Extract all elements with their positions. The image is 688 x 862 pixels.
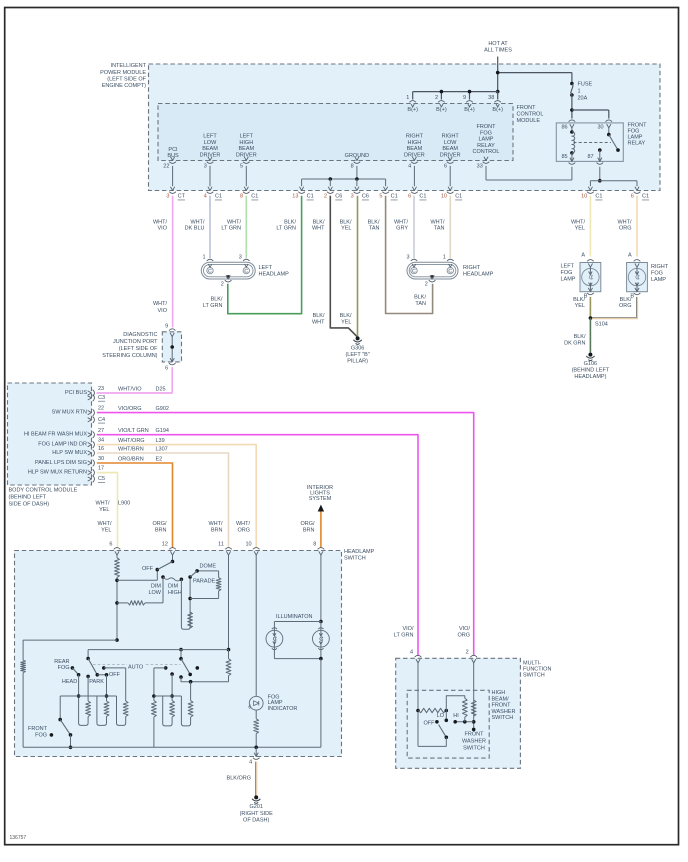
svg-text:G201: G201 bbox=[249, 804, 262, 810]
svg-text:ORG: ORG bbox=[237, 527, 250, 533]
svg-text:WHT/: WHT/ bbox=[95, 501, 110, 507]
svg-text:PCI BUS: PCI BUS bbox=[65, 390, 87, 396]
svg-text:ORG/BRN: ORG/BRN bbox=[118, 456, 144, 462]
svg-text:ORG: ORG bbox=[457, 632, 470, 638]
svg-text:OFF: OFF bbox=[109, 672, 121, 678]
svg-text:(RIGHT SIDE: (RIGHT SIDE bbox=[240, 811, 274, 817]
svg-text:FRONT: FRONT bbox=[517, 105, 537, 111]
svg-text:LAMP: LAMP bbox=[561, 277, 576, 283]
svg-text:FRONT: FRONT bbox=[28, 726, 48, 732]
svg-text:D25: D25 bbox=[156, 386, 166, 392]
svg-text:LAMP: LAMP bbox=[651, 277, 666, 283]
svg-text:C1: C1 bbox=[307, 194, 314, 200]
svg-text:ORG/: ORG/ bbox=[152, 521, 167, 527]
svg-text:RELAY: RELAY bbox=[628, 141, 646, 147]
svg-text:5: 5 bbox=[379, 194, 382, 200]
svg-text:SWITCH: SWITCH bbox=[492, 715, 514, 721]
svg-text:4: 4 bbox=[410, 650, 413, 656]
svg-text:FUSE: FUSE bbox=[578, 82, 593, 88]
svg-text:BLK/: BLK/ bbox=[414, 295, 426, 301]
svg-text:27: 27 bbox=[98, 428, 104, 434]
svg-text:WASHER: WASHER bbox=[492, 709, 516, 715]
svg-text:RIGHT: RIGHT bbox=[442, 134, 460, 140]
svg-text:6: 6 bbox=[631, 194, 634, 200]
svg-text:C1: C1 bbox=[391, 194, 398, 200]
svg-text:VIO/: VIO/ bbox=[402, 626, 413, 632]
svg-text:PARADE: PARADE bbox=[193, 578, 216, 584]
svg-text:HEADLAMP): HEADLAMP) bbox=[574, 374, 606, 380]
svg-text:4: 4 bbox=[204, 194, 207, 200]
svg-text:RIGHT: RIGHT bbox=[651, 264, 669, 270]
svg-text:LAMP: LAMP bbox=[479, 137, 494, 143]
svg-text:S104: S104 bbox=[595, 321, 608, 327]
svg-text:3: 3 bbox=[204, 164, 207, 170]
svg-text:C6: C6 bbox=[335, 194, 342, 200]
svg-text:FOG: FOG bbox=[35, 733, 47, 739]
svg-text:LT GRN: LT GRN bbox=[276, 226, 296, 232]
svg-text:B(+): B(+) bbox=[436, 107, 447, 113]
svg-text:VIO/LT GRN: VIO/LT GRN bbox=[118, 428, 149, 434]
svg-text:C5: C5 bbox=[98, 476, 105, 482]
svg-text:VIO: VIO bbox=[158, 226, 168, 232]
svg-text:WHT/: WHT/ bbox=[227, 219, 242, 225]
svg-text:B(+): B(+) bbox=[464, 107, 475, 113]
svg-text:33: 33 bbox=[477, 164, 483, 170]
svg-text:BLK/: BLK/ bbox=[573, 297, 585, 303]
svg-text:WHT/: WHT/ bbox=[97, 521, 112, 527]
svg-text:WHT/VIO: WHT/VIO bbox=[118, 386, 142, 392]
svg-text:C4: C4 bbox=[98, 417, 105, 423]
svg-text:FRONT: FRONT bbox=[477, 124, 497, 130]
svg-text:2: 2 bbox=[425, 281, 428, 287]
svg-text:G194: G194 bbox=[156, 428, 169, 434]
svg-text:34: 34 bbox=[98, 438, 104, 444]
svg-text:DIM: DIM bbox=[151, 584, 162, 590]
svg-text:WHT/: WHT/ bbox=[617, 219, 632, 225]
svg-text:HIGH: HIGH bbox=[239, 140, 253, 146]
svg-text:BEAM: BEAM bbox=[442, 146, 458, 152]
svg-text:LEFT: LEFT bbox=[203, 134, 217, 140]
svg-text:PARK: PARK bbox=[89, 679, 104, 685]
svg-text:BLK/: BLK/ bbox=[368, 219, 380, 225]
svg-text:WHT/: WHT/ bbox=[394, 219, 409, 225]
svg-text:6: 6 bbox=[444, 164, 447, 170]
svg-text:LEFT: LEFT bbox=[240, 134, 254, 140]
svg-text:10: 10 bbox=[245, 542, 251, 548]
svg-text:SYSTEM: SYSTEM bbox=[309, 496, 332, 502]
svg-text:MODULE: MODULE bbox=[517, 118, 541, 124]
svg-text:11: 11 bbox=[218, 542, 224, 548]
svg-text:LT GRN: LT GRN bbox=[221, 226, 241, 232]
svg-text:9: 9 bbox=[165, 323, 168, 329]
svg-text:C6: C6 bbox=[362, 194, 369, 200]
svg-text:(LEFT SIDE OF: (LEFT SIDE OF bbox=[107, 77, 146, 83]
svg-text:YEL: YEL bbox=[341, 226, 351, 232]
svg-text:C1: C1 bbox=[595, 194, 602, 200]
svg-text:ORG: ORG bbox=[619, 303, 632, 309]
svg-text:G306: G306 bbox=[351, 346, 364, 352]
svg-text:WHT/: WHT/ bbox=[153, 301, 168, 307]
svg-text:CT: CT bbox=[178, 194, 186, 200]
svg-text:1: 1 bbox=[578, 89, 581, 95]
svg-text:C1: C1 bbox=[419, 194, 426, 200]
svg-text:ILLUMINATON: ILLUMINATON bbox=[276, 614, 312, 620]
svg-text:E2: E2 bbox=[156, 456, 163, 462]
svg-text:BLK/: BLK/ bbox=[340, 313, 352, 319]
svg-text:3: 3 bbox=[166, 194, 169, 200]
svg-text:WHT/: WHT/ bbox=[208, 521, 223, 527]
svg-text:(BEHIND LEFT: (BEHIND LEFT bbox=[572, 368, 610, 374]
svg-text:POWER MODULE: POWER MODULE bbox=[100, 70, 146, 76]
svg-text:C3: C3 bbox=[98, 395, 105, 401]
svg-text:WHT/BRN: WHT/BRN bbox=[118, 446, 144, 452]
svg-text:30: 30 bbox=[98, 456, 104, 462]
svg-text:SWITCH: SWITCH bbox=[344, 556, 366, 562]
svg-text:5: 5 bbox=[240, 164, 243, 170]
svg-text:WHT/: WHT/ bbox=[430, 219, 445, 225]
svg-text:PANEL LPS DIM SIG: PANEL LPS DIM SIG bbox=[35, 460, 87, 466]
svg-text:1: 1 bbox=[406, 95, 409, 101]
svg-text:HIGH: HIGH bbox=[408, 140, 422, 146]
svg-text:DOME: DOME bbox=[200, 563, 217, 569]
svg-text:WHT: WHT bbox=[312, 226, 325, 232]
svg-text:8: 8 bbox=[351, 164, 354, 170]
svg-text:BEAM: BEAM bbox=[202, 146, 218, 152]
svg-text:CONTROL: CONTROL bbox=[473, 149, 500, 155]
svg-text:WASHER: WASHER bbox=[462, 739, 486, 745]
svg-text:ALL TIMES: ALL TIMES bbox=[484, 48, 512, 54]
svg-text:9: 9 bbox=[463, 95, 466, 101]
svg-text:SWITCH: SWITCH bbox=[523, 673, 545, 679]
svg-text:C1: C1 bbox=[642, 194, 649, 200]
svg-text:3: 3 bbox=[239, 255, 242, 261]
svg-text:CONTROL: CONTROL bbox=[517, 112, 544, 118]
svg-text:13: 13 bbox=[292, 194, 298, 200]
svg-text:WHT/: WHT/ bbox=[571, 219, 586, 225]
svg-text:DIM: DIM bbox=[168, 584, 179, 590]
svg-text:LEFT: LEFT bbox=[561, 264, 575, 270]
svg-text:HEAD: HEAD bbox=[62, 679, 77, 685]
svg-text:BUS: BUS bbox=[167, 153, 179, 159]
svg-text:BRN: BRN bbox=[211, 527, 223, 533]
svg-text:WHT/: WHT/ bbox=[236, 521, 251, 527]
svg-text:FOG: FOG bbox=[480, 130, 492, 136]
svg-text:LEFT: LEFT bbox=[259, 265, 273, 271]
svg-text:23: 23 bbox=[98, 386, 104, 392]
svg-text:DK BLU: DK BLU bbox=[185, 226, 205, 232]
svg-text:INTELLIGENT: INTELLIGENT bbox=[111, 63, 147, 69]
svg-text:30: 30 bbox=[598, 124, 604, 130]
svg-text:1: 1 bbox=[202, 255, 205, 261]
svg-text:BLK/: BLK/ bbox=[313, 313, 325, 319]
svg-text:BEAM: BEAM bbox=[407, 146, 423, 152]
svg-text:C1: C1 bbox=[455, 194, 462, 200]
svg-text:FOG: FOG bbox=[58, 665, 70, 671]
svg-text:BLK/: BLK/ bbox=[340, 219, 352, 225]
svg-text:SW MUX RTN: SW MUX RTN bbox=[52, 410, 87, 416]
svg-text:RIGHT: RIGHT bbox=[406, 134, 424, 140]
svg-text:3: 3 bbox=[351, 194, 354, 200]
svg-text:DRIVER: DRIVER bbox=[440, 152, 461, 158]
svg-text:GRY: GRY bbox=[396, 226, 408, 232]
svg-text:10: 10 bbox=[441, 194, 447, 200]
svg-text:C1: C1 bbox=[215, 194, 222, 200]
svg-text:G902: G902 bbox=[156, 406, 169, 412]
svg-text:85: 85 bbox=[562, 154, 568, 160]
svg-text:BEAM/: BEAM/ bbox=[492, 696, 510, 702]
svg-text:TAN: TAN bbox=[369, 226, 380, 232]
svg-text:ORG: ORG bbox=[619, 226, 632, 232]
svg-text:C1: C1 bbox=[251, 194, 258, 200]
svg-text:WHT/: WHT/ bbox=[153, 219, 168, 225]
svg-text:HIGH: HIGH bbox=[492, 690, 506, 696]
svg-text:HLP SW MUX: HLP SW MUX bbox=[52, 450, 87, 456]
svg-text:A: A bbox=[628, 252, 632, 258]
svg-text:TAN: TAN bbox=[415, 301, 426, 307]
svg-text:LOW: LOW bbox=[204, 140, 217, 146]
svg-text:22: 22 bbox=[98, 406, 104, 412]
svg-text:HEADLAMP: HEADLAMP bbox=[259, 272, 290, 278]
svg-text:12: 12 bbox=[162, 542, 168, 548]
svg-text:6: 6 bbox=[109, 542, 112, 548]
svg-text:REAR: REAR bbox=[54, 659, 69, 665]
svg-text:JUNCTION PORT: JUNCTION PORT bbox=[113, 339, 158, 345]
svg-text:6: 6 bbox=[165, 365, 168, 371]
svg-text:VIO/: VIO/ bbox=[459, 626, 470, 632]
svg-text:DIAGNOSTIC: DIAGNOSTIC bbox=[123, 332, 157, 338]
svg-text:17: 17 bbox=[98, 466, 104, 472]
svg-text:HLP SW MUX RETURN: HLP SW MUX RETURN bbox=[28, 470, 87, 476]
svg-text:YEL: YEL bbox=[575, 303, 585, 309]
svg-text:RIGHT: RIGHT bbox=[463, 265, 481, 271]
svg-text:LOW: LOW bbox=[148, 590, 161, 596]
svg-text:INDICATOR: INDICATOR bbox=[268, 706, 298, 712]
svg-text:HI BEAM FR WASH MUX: HI BEAM FR WASH MUX bbox=[24, 432, 87, 438]
svg-text:LT GRN: LT GRN bbox=[203, 303, 223, 309]
svg-text:B(+): B(+) bbox=[492, 107, 503, 113]
svg-text:AUTO: AUTO bbox=[128, 665, 144, 671]
svg-text:LOW: LOW bbox=[444, 140, 457, 146]
svg-text:(LEFT SIDE OF: (LEFT SIDE OF bbox=[119, 346, 158, 352]
svg-text:PCI: PCI bbox=[168, 147, 178, 153]
svg-text:DK GRN: DK GRN bbox=[564, 340, 585, 346]
svg-text:DRIVER: DRIVER bbox=[236, 152, 257, 158]
svg-text:L900: L900 bbox=[118, 501, 130, 507]
svg-text:BEAM: BEAM bbox=[239, 146, 255, 152]
svg-text:87: 87 bbox=[588, 154, 594, 160]
svg-text:2: 2 bbox=[435, 95, 438, 101]
svg-text:STEERING COLUMN): STEERING COLUMN) bbox=[102, 353, 157, 359]
svg-text:HI: HI bbox=[453, 713, 459, 719]
svg-text:FOG LAMP IND DR: FOG LAMP IND DR bbox=[38, 442, 87, 448]
svg-text:YEL: YEL bbox=[575, 226, 585, 232]
svg-text:VIO: VIO bbox=[158, 308, 168, 314]
svg-text:GROUND: GROUND bbox=[345, 153, 369, 159]
svg-text:86: 86 bbox=[562, 124, 568, 130]
svg-text:BODY CONTROL MODULE: BODY CONTROL MODULE bbox=[9, 488, 78, 494]
svg-text:DRIVER: DRIVER bbox=[200, 152, 221, 158]
svg-text:FOG: FOG bbox=[651, 271, 663, 277]
svg-text:TAN: TAN bbox=[434, 226, 445, 232]
svg-text:L307: L307 bbox=[156, 446, 168, 452]
svg-text:LO: LO bbox=[437, 713, 445, 719]
svg-text:(BEHIND LEFT: (BEHIND LEFT bbox=[9, 495, 47, 501]
svg-text:22: 22 bbox=[163, 164, 169, 170]
svg-text:HOT AT: HOT AT bbox=[488, 41, 508, 47]
svg-text:BRN: BRN bbox=[303, 527, 315, 533]
svg-text:OFF: OFF bbox=[424, 721, 436, 727]
svg-text:4: 4 bbox=[408, 164, 411, 170]
svg-text:FRONT: FRONT bbox=[465, 732, 485, 738]
svg-text:VIO/ORG: VIO/ORG bbox=[118, 406, 142, 412]
svg-text:HIGH: HIGH bbox=[168, 590, 182, 596]
svg-text:L39: L39 bbox=[156, 438, 165, 444]
svg-text:HEADLAMP: HEADLAMP bbox=[344, 549, 375, 555]
svg-text:6: 6 bbox=[408, 194, 411, 200]
svg-text:2: 2 bbox=[466, 650, 469, 656]
svg-text:FRONT: FRONT bbox=[492, 703, 512, 709]
svg-text:BLK/: BLK/ bbox=[620, 297, 632, 303]
svg-text:PILLAR): PILLAR) bbox=[347, 359, 368, 365]
svg-text:A: A bbox=[581, 252, 585, 258]
svg-text:SWITCH: SWITCH bbox=[463, 746, 485, 752]
svg-text:ORG/: ORG/ bbox=[300, 521, 315, 527]
svg-text:(LEFT "B": (LEFT "B" bbox=[345, 352, 369, 358]
svg-text:RELAY: RELAY bbox=[477, 143, 495, 149]
svg-text:10: 10 bbox=[581, 194, 587, 200]
svg-text:WHT: WHT bbox=[312, 319, 325, 325]
svg-text:ENGINE COMPT): ENGINE COMPT) bbox=[102, 83, 146, 89]
svg-text:OF DASH): OF DASH) bbox=[243, 818, 269, 824]
svg-text:20A: 20A bbox=[578, 96, 588, 102]
svg-text:16: 16 bbox=[98, 446, 104, 452]
svg-text:YEL: YEL bbox=[341, 319, 351, 325]
svg-text:DRIVER: DRIVER bbox=[404, 152, 425, 158]
svg-text:SIDE OF DASH): SIDE OF DASH) bbox=[9, 502, 50, 508]
svg-text:YEL: YEL bbox=[99, 507, 109, 513]
svg-text:2: 2 bbox=[221, 281, 224, 287]
svg-text:1: 1 bbox=[443, 255, 446, 261]
svg-text:38: 38 bbox=[488, 95, 494, 101]
svg-text:136757: 136757 bbox=[10, 835, 27, 841]
svg-text:3: 3 bbox=[406, 255, 409, 261]
svg-text:BLK/: BLK/ bbox=[313, 219, 325, 225]
svg-text:8: 8 bbox=[240, 194, 243, 200]
svg-text:4: 4 bbox=[249, 759, 252, 765]
svg-text:B(+): B(+) bbox=[407, 107, 418, 113]
svg-text:OFF: OFF bbox=[142, 566, 154, 572]
svg-text:BLK/: BLK/ bbox=[574, 334, 586, 340]
svg-text:LT GRN: LT GRN bbox=[394, 632, 414, 638]
svg-text:G106: G106 bbox=[584, 361, 597, 367]
svg-text:2: 2 bbox=[324, 194, 327, 200]
svg-text:WHT/: WHT/ bbox=[190, 219, 205, 225]
svg-text:BRN: BRN bbox=[155, 527, 167, 533]
svg-text:BLK/: BLK/ bbox=[284, 219, 296, 225]
svg-text:8: 8 bbox=[313, 542, 316, 548]
svg-text:FOG: FOG bbox=[561, 270, 573, 276]
svg-text:HEADLAMP: HEADLAMP bbox=[463, 272, 494, 278]
svg-text:BLK/: BLK/ bbox=[211, 297, 223, 303]
svg-text:BLK/ORG: BLK/ORG bbox=[227, 776, 251, 782]
svg-text:WHT/ORG: WHT/ORG bbox=[118, 438, 145, 444]
svg-text:YEL: YEL bbox=[101, 527, 111, 533]
